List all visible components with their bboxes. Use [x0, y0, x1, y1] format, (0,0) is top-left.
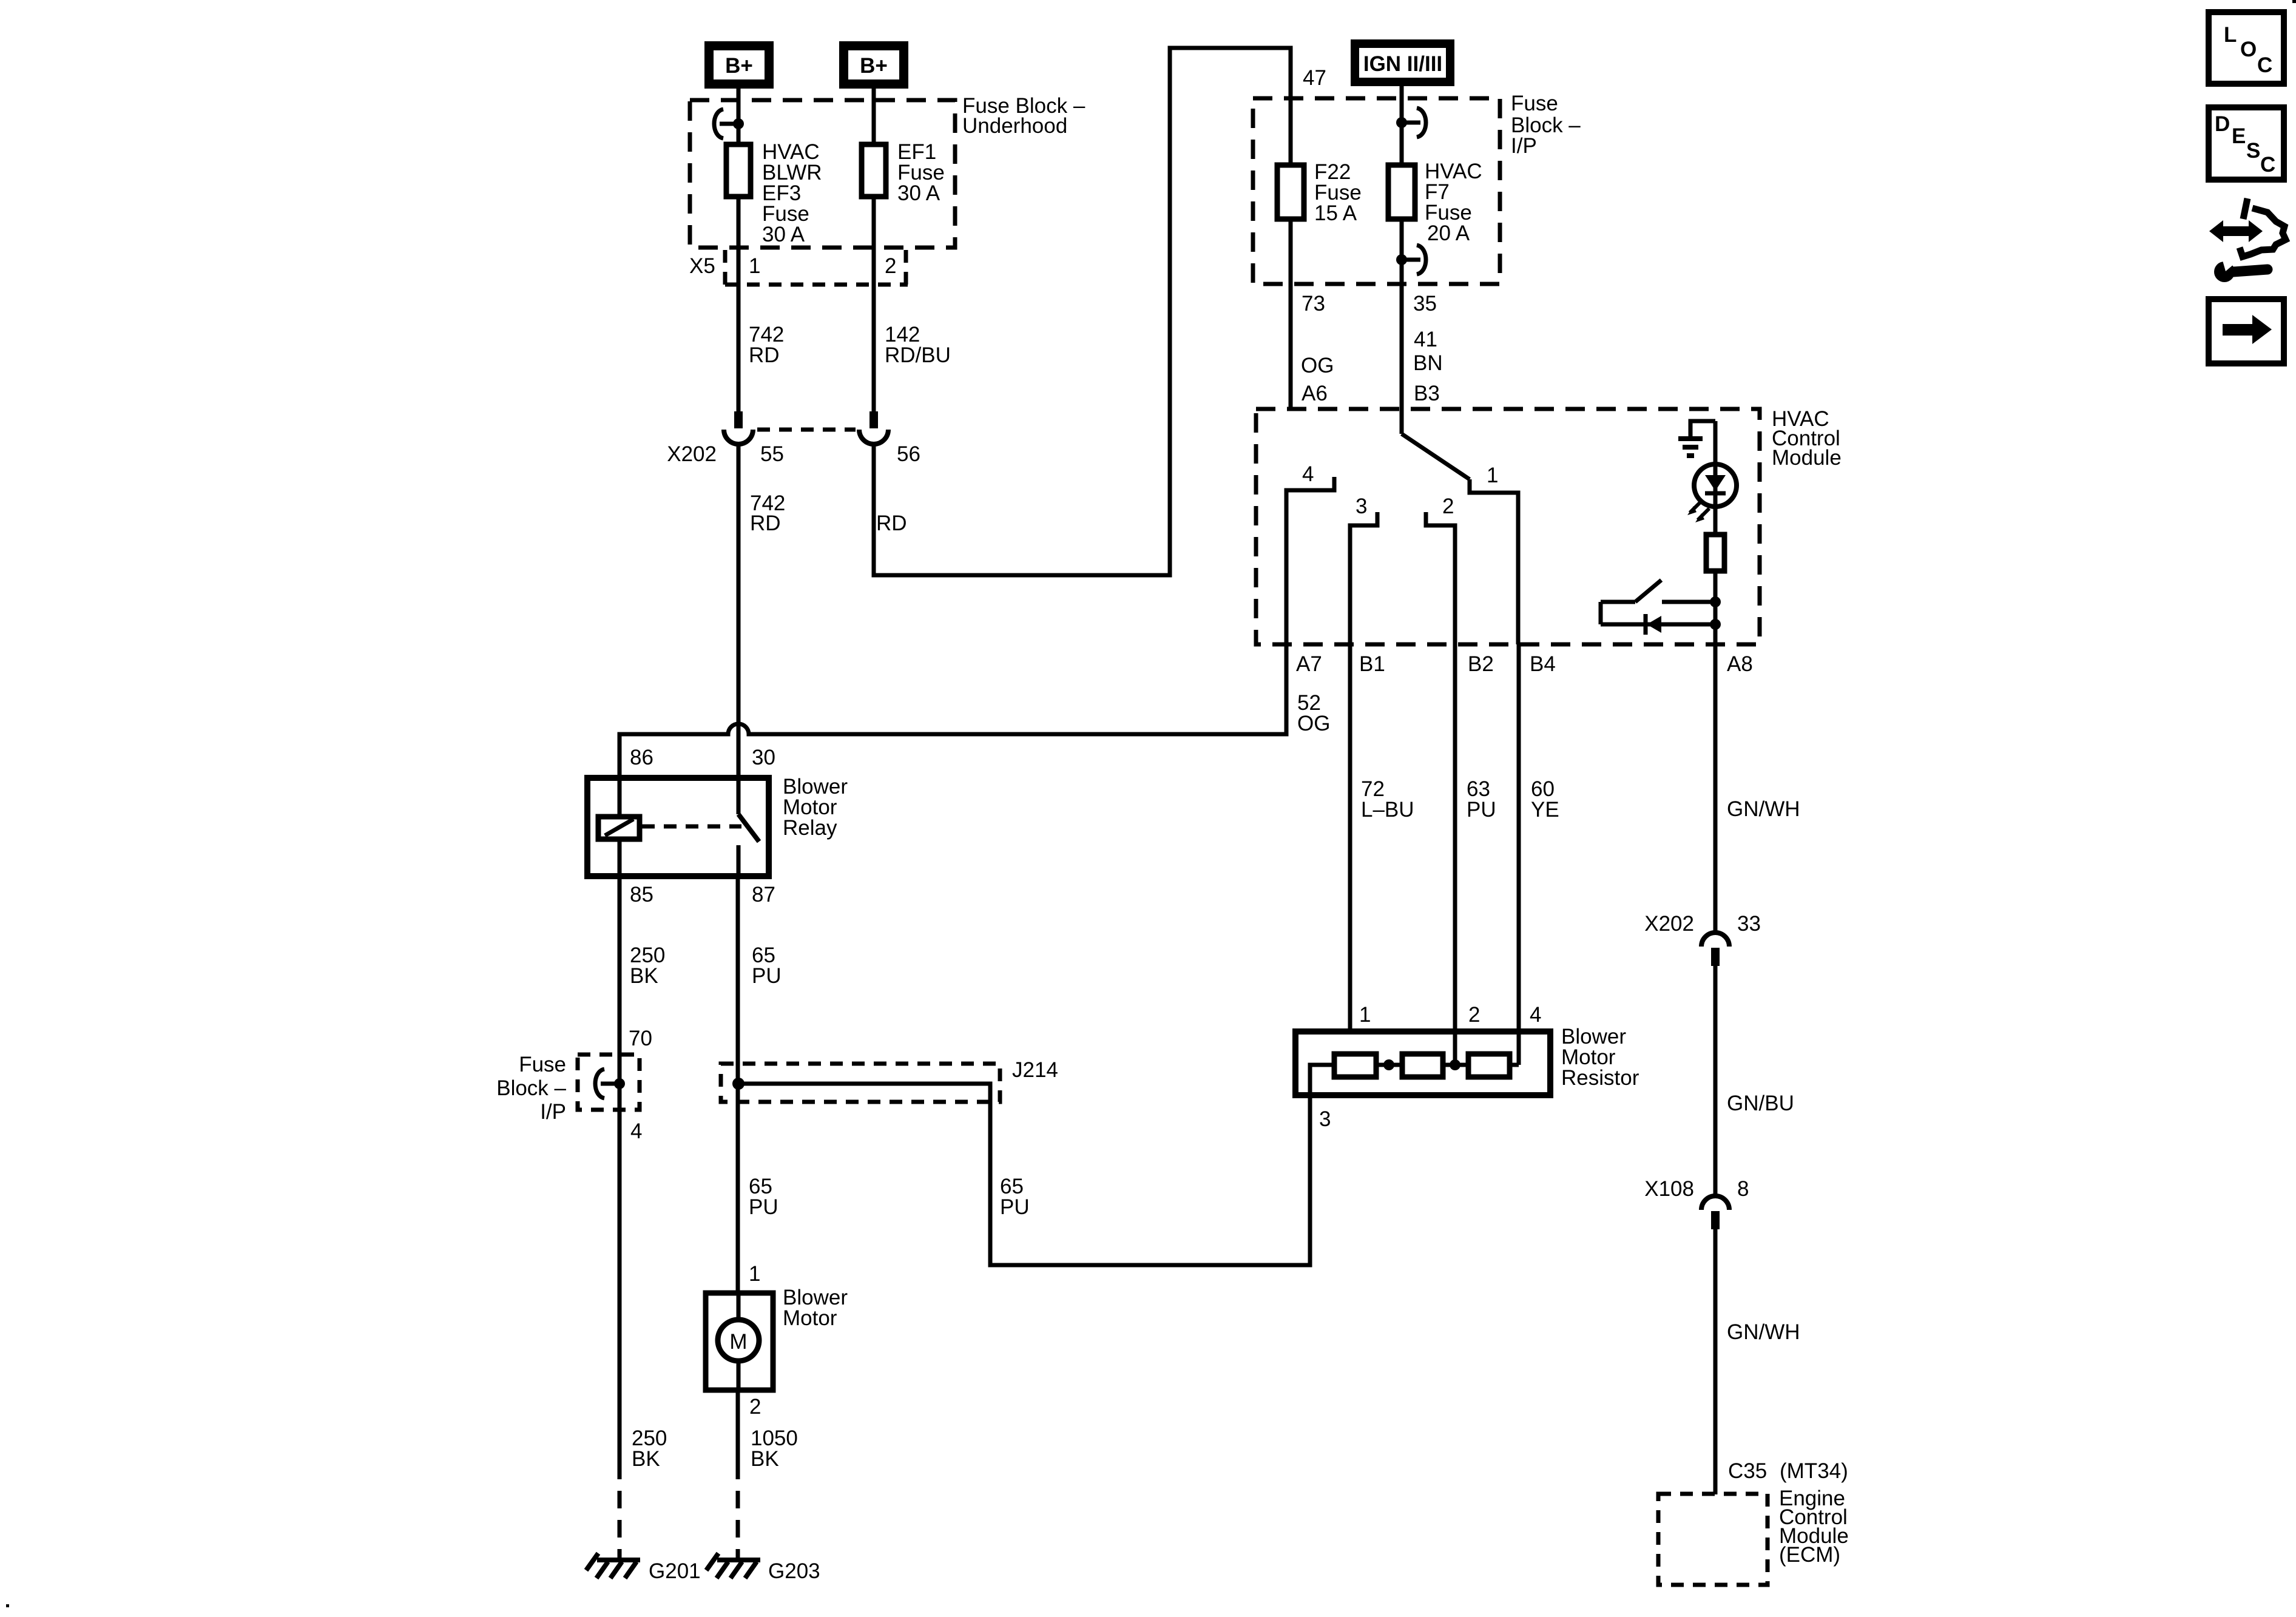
- svg-text:BN: BN: [1413, 351, 1443, 375]
- wire label 65 PU: [752, 944, 782, 988]
- ground G201: [586, 1553, 640, 1578]
- LED indicator: [1687, 464, 1737, 522]
- svg-text:X108: X108: [1644, 1177, 1694, 1201]
- svg-text:RD: RD: [750, 511, 781, 535]
- svg-text:2: 2: [749, 1395, 761, 1419]
- svg-text:OG: OG: [1301, 354, 1334, 377]
- svg-text:Module: Module: [1772, 446, 1842, 470]
- svg-text:PU: PU: [752, 964, 782, 988]
- svg-text:30 A: 30 A: [762, 223, 805, 246]
- svg-text:RD: RD: [749, 343, 780, 367]
- svg-text:YE: YE: [1531, 798, 1559, 822]
- svg-text:47: 47: [1303, 66, 1326, 90]
- ground inside module: [1678, 421, 1715, 456]
- wire B2 to resistor pin 2: [1453, 644, 1457, 1065]
- wire A8 to ECM: [1714, 644, 1718, 933]
- resistor inside module: [1706, 535, 1724, 571]
- hook symbol top: [1402, 121, 1420, 125]
- wire label 65 PU mid: [1000, 1175, 1030, 1219]
- svg-text:73: 73: [1302, 292, 1325, 316]
- fuse block I/P dashed box (top): [1253, 98, 1500, 284]
- svg-text:1: 1: [1487, 464, 1498, 487]
- wire relay 85 to G201: [618, 876, 622, 1479]
- page corner mark: [2292, 0, 2296, 3]
- HVAC control module dashed box: [1256, 409, 1760, 644]
- bus wire to pin 4: [1510, 1063, 1519, 1067]
- next page arrow icon box: [2209, 299, 2284, 363]
- svg-text:IGN II/III: IGN II/III: [1363, 52, 1442, 76]
- relay link dashed: [642, 825, 741, 829]
- wire label 742 RD lower: [750, 491, 785, 535]
- relay coil: [598, 778, 640, 876]
- wire A7 to relay 86 with hop over 742 RD: [620, 644, 1286, 778]
- switch inside module: [1601, 580, 1715, 602]
- wire label 142 RD/BU: [885, 323, 951, 367]
- blower motor: [706, 1293, 773, 1390]
- connector X5 dashed row: [725, 250, 908, 285]
- svg-text:(MT34): (MT34): [1780, 1459, 1848, 1483]
- svg-text:33: 33: [1737, 912, 1761, 936]
- svg-text:70: 70: [629, 1027, 652, 1050]
- svg-text:G203: G203: [768, 1559, 820, 1583]
- repair icon double arrow and wrench: [2209, 198, 2286, 282]
- svg-text:PU: PU: [1467, 798, 1496, 822]
- bus wire and dot: [1376, 1063, 1402, 1067]
- svg-text:55: 55: [760, 442, 784, 466]
- switch from B3 to pin 1 inside module: [1402, 434, 1518, 644]
- svg-text:L: L: [2224, 23, 2237, 47]
- fuse F22 15A: [1277, 165, 1304, 219]
- hook symbol bottom: [1402, 258, 1420, 262]
- LOC icon box: [2209, 12, 2284, 84]
- svg-text:Fuse: Fuse: [519, 1053, 566, 1076]
- wire label 742 RD: [749, 323, 784, 367]
- svg-text:BK: BK: [751, 1447, 779, 1471]
- wire label 52 OG: [1297, 691, 1330, 735]
- svg-text:C: C: [2257, 53, 2272, 77]
- svg-text:56: 56: [897, 442, 920, 466]
- svg-text:B4: B4: [1530, 652, 1556, 676]
- wire IGN to HVAC F7 fuse: [1400, 86, 1404, 434]
- fuse HVAC BLWR EF3 30A: [726, 144, 751, 197]
- svg-text:4: 4: [1530, 1003, 1541, 1027]
- svg-text:30 A: 30 A: [897, 181, 940, 205]
- svg-text:J214: J214: [1012, 1058, 1058, 1082]
- bus wire and dot: [1443, 1063, 1468, 1067]
- svg-text:BK: BK: [630, 964, 658, 988]
- fuse block I/P small dashed box: [578, 1055, 640, 1110]
- hook symbol: [601, 1082, 620, 1086]
- svg-text:C35: C35: [1728, 1459, 1767, 1483]
- resistor element 1: [1334, 1054, 1376, 1077]
- svg-text:B1: B1: [1359, 652, 1385, 676]
- relay switch: [738, 814, 759, 876]
- svg-text:S: S: [2246, 139, 2260, 163]
- battery feed B+ box 1: [704, 41, 774, 89]
- wire to ECM: [1714, 1229, 1718, 1494]
- svg-text:PU: PU: [1000, 1195, 1030, 1219]
- wire blower motor to G203: [736, 1390, 740, 1479]
- fuse EF1 30A: [862, 144, 886, 197]
- svg-text:1: 1: [749, 1262, 760, 1286]
- svg-text:35: 35: [1413, 292, 1437, 316]
- wire ground to LED resistor and A8: [1714, 421, 1718, 644]
- power feed IGN II/III box: [1351, 39, 1454, 86]
- engine control module dashed box: [1658, 1494, 1768, 1585]
- hook symbol fuse feed: [720, 122, 738, 126]
- svg-text:I/P: I/P: [540, 1100, 566, 1124]
- svg-text:GN/BU: GN/BU: [1727, 1092, 1794, 1115]
- wire label 250 BK: [630, 944, 665, 988]
- svg-text:85: 85: [630, 883, 653, 906]
- svg-text:A7: A7: [1296, 652, 1322, 676]
- svg-text:RD: RD: [876, 511, 907, 535]
- svg-text:PU: PU: [749, 1195, 778, 1219]
- splice J214 junction dot: [732, 1078, 745, 1090]
- svg-text:4: 4: [1302, 462, 1314, 486]
- resistor element 2: [1402, 1054, 1443, 1077]
- svg-text:Fuse: Fuse: [1511, 92, 1558, 115]
- battery feed B+ box 2: [839, 41, 908, 89]
- svg-text:1: 1: [1359, 1003, 1371, 1027]
- svg-text:G201: G201: [649, 1559, 701, 1583]
- svg-text:(ECM): (ECM): [1779, 1543, 1840, 1567]
- wire B+2 to fuse EF1: [872, 89, 876, 411]
- svg-text:Resistor: Resistor: [1561, 1066, 1639, 1090]
- svg-text:41: 41: [1414, 328, 1437, 351]
- connector X108 pin 8: [1701, 1196, 1729, 1229]
- blower motor resistor box: [1295, 1031, 1550, 1095]
- svg-text:X5: X5: [689, 254, 715, 278]
- svg-text:RD/BU: RD/BU: [885, 343, 951, 367]
- svg-text:GN/WH: GN/WH: [1727, 797, 1800, 821]
- blower motor relay box: [587, 778, 769, 876]
- svg-text:3: 3: [1356, 495, 1367, 518]
- svg-text:B+: B+: [860, 54, 888, 78]
- svg-text:15 A: 15 A: [1314, 201, 1357, 225]
- svg-text:C: C: [2260, 153, 2275, 177]
- ground G203: [706, 1553, 760, 1578]
- module pin 2 wire: [1426, 512, 1455, 644]
- X202 dashed connector link: [757, 428, 856, 432]
- svg-text:86: 86: [630, 746, 653, 769]
- wire label 250 BK lower: [632, 1426, 667, 1471]
- DESC icon box: [2209, 107, 2284, 180]
- svg-text:Relay: Relay: [783, 816, 837, 840]
- svg-text:A8: A8: [1727, 652, 1753, 676]
- fuse HVAC F7 20A: [1388, 165, 1415, 219]
- svg-text:8: 8: [1737, 1177, 1749, 1201]
- svg-text:2: 2: [1468, 1003, 1480, 1027]
- svg-text:B3: B3: [1414, 382, 1440, 405]
- resistor element 3: [1468, 1054, 1510, 1077]
- junction dot: [733, 118, 744, 129]
- diode inside module: [1601, 602, 1715, 635]
- connector X202 pin 56: [859, 411, 888, 444]
- wire B+1 to fuse HVAC BLWR EF3: [737, 89, 741, 411]
- fuse block underhood dashed box: [690, 100, 955, 248]
- connector X202 pin 55: [724, 411, 753, 444]
- svg-text:I/P: I/P: [1511, 134, 1537, 158]
- wire label 63 PU: [1467, 777, 1496, 822]
- page dot bottom left: [6, 1604, 9, 1607]
- svg-text:B+: B+: [725, 54, 753, 78]
- wire label 72 L-BU: [1361, 777, 1414, 822]
- wire RD from X202-56 up over to fuse block I/P: [874, 48, 1291, 575]
- module pin 3 wire: [1350, 512, 1377, 644]
- svg-text:20 A: 20 A: [1427, 221, 1470, 245]
- svg-text:2: 2: [1442, 495, 1454, 518]
- wire relay 87 to blower motor: [736, 876, 740, 1293]
- junction dots: [1710, 596, 1721, 607]
- svg-text:B2: B2: [1468, 652, 1494, 676]
- svg-text:D: D: [2215, 112, 2230, 136]
- wire label 65 PU left: [749, 1175, 778, 1219]
- svg-text:30: 30: [752, 746, 775, 769]
- label Fuse Block - I/P: [496, 1053, 566, 1124]
- svg-text:L–BU: L–BU: [1361, 798, 1414, 822]
- J214 dashed box: [721, 1064, 1000, 1102]
- svg-text:O: O: [2240, 38, 2257, 61]
- svg-text:2: 2: [885, 254, 896, 278]
- label Fuse Block - Underhood: [962, 94, 1086, 138]
- label Fuse Block - I/P: [1511, 92, 1581, 158]
- wire to X108: [1714, 966, 1718, 1195]
- svg-text:GN/WH: GN/WH: [1727, 1320, 1800, 1344]
- svg-text:X202: X202: [667, 442, 717, 466]
- svg-text:1: 1: [749, 254, 760, 278]
- svg-text:Underhood: Underhood: [962, 114, 1067, 138]
- wire label 60 YE: [1531, 777, 1559, 822]
- wire B4 to resistor pin 4: [1517, 644, 1521, 1065]
- splice wire to blower motor resistor pin 3: [738, 1065, 1334, 1265]
- svg-text:4: 4: [630, 1119, 642, 1143]
- svg-text:OG: OG: [1297, 712, 1330, 735]
- wire B1 to resistor pin 1: [1348, 644, 1352, 1031]
- svg-text:Block –: Block –: [496, 1076, 566, 1100]
- svg-text:A6: A6: [1302, 382, 1328, 405]
- svg-text:M: M: [729, 1330, 747, 1354]
- svg-text:Motor: Motor: [783, 1306, 837, 1330]
- svg-text:BK: BK: [632, 1447, 660, 1471]
- svg-text:3: 3: [1319, 1107, 1331, 1131]
- connector X202 pin 33: [1701, 933, 1729, 966]
- wire label 1050 BK: [751, 1426, 798, 1471]
- svg-text:X202: X202: [1644, 912, 1694, 936]
- wire 742 RD from X202-55 down to relay pin 30: [737, 444, 741, 814]
- svg-text:E: E: [2232, 124, 2246, 148]
- svg-text:87: 87: [752, 883, 775, 906]
- module pin 4 wire: [1286, 477, 1334, 644]
